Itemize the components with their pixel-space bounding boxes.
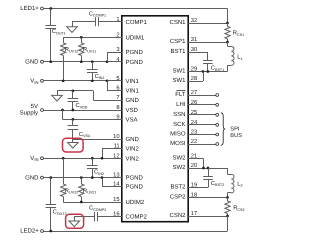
terminal MOSI xyxy=(216,143,219,146)
svg-text:CSN1: CSN1 xyxy=(169,19,186,26)
svg-text:GND: GND xyxy=(126,136,140,143)
wire LHI pin26 to terminal xyxy=(188,104,216,106)
svg-text:SSN: SSN xyxy=(173,111,185,118)
inductor L2 xyxy=(227,168,229,174)
IC U1 LED-driver controller body outline xyxy=(122,16,188,222)
node junction UDIM1 / RUV11 xyxy=(80,36,83,39)
svg-text:CSP2: CSP2 xyxy=(170,194,186,201)
svg-text:VSA: VSA xyxy=(126,117,138,124)
wire VIN1 pin6 riser xyxy=(107,81,109,91)
capacitor CIN2 xyxy=(92,158,94,165)
svg-text:5V: 5V xyxy=(31,103,38,110)
wire SW1 pin29 xyxy=(188,71,228,73)
wire SW2 pin20 xyxy=(188,168,228,170)
wire BST2 pin19 xyxy=(188,187,208,189)
wire VSA pin9 riser xyxy=(62,110,64,119)
capacitor CIN1 xyxy=(92,62,94,70)
wire BST1 pin30 to CBST1 xyxy=(188,52,208,54)
wire CSN2 pin17 xyxy=(188,216,228,218)
wire FLT pin27 to terminal xyxy=(188,95,216,97)
svg-text:GND: GND xyxy=(25,174,39,181)
wire top rail drop to CSN1 xyxy=(227,9,229,24)
wire GND pin7 jog xyxy=(93,100,122,102)
node junction GND/RUV21 xyxy=(80,176,83,179)
node junction PGND pins 3-4 xyxy=(106,60,109,63)
wire VIN2 pin11 riser xyxy=(102,148,122,150)
wire PGND pin14 riser xyxy=(102,178,104,187)
svg-text:SW2: SW2 xyxy=(172,164,186,171)
svg-text:FLT: FLT xyxy=(175,91,186,98)
svg-text:UDIM1: UDIM1 xyxy=(126,35,145,42)
capacitor CCOMP1 xyxy=(95,17,97,26)
capacitor CBST2 xyxy=(208,168,210,176)
wire COMP1 pin1 to CCOMP1 xyxy=(98,21,122,23)
capacitor CVSA xyxy=(72,119,74,126)
wire top rail LED1+ to CSN1 column xyxy=(43,8,227,10)
node junction VIN/RUV12 xyxy=(62,79,65,82)
svg-text:SPI: SPI xyxy=(230,127,240,133)
resistor RUV12 xyxy=(63,37,65,42)
node junction GND/COUT2 xyxy=(49,176,52,179)
terminal SSN xyxy=(216,113,219,116)
resistor RUV11 xyxy=(81,37,83,42)
svg-text:CSN2: CSN2 xyxy=(169,212,186,219)
terminal MISO xyxy=(216,133,219,136)
svg-text:SW1: SW1 xyxy=(172,68,186,75)
node junction VSD/CVDD xyxy=(72,109,75,112)
wire CSP1 pin31 xyxy=(188,42,228,44)
svg-text:Supply: Supply xyxy=(20,109,38,116)
node junction GND/CIN2 xyxy=(91,176,94,179)
capacitor CCOMP2 xyxy=(94,212,96,221)
wire MISO pin23 to terminal xyxy=(188,134,216,136)
ground symbol at CCOMP1 xyxy=(67,27,78,33)
svg-text:UDIM2: UDIM2 xyxy=(126,199,145,206)
node junction CSN2/RCS2 xyxy=(226,215,229,218)
resistor RCS2 xyxy=(227,198,229,202)
node junction VIN1 pins 5-6 xyxy=(106,79,109,82)
node junction VSD/VSA riser xyxy=(61,109,64,112)
terminal FLT xyxy=(216,94,219,97)
node junction VSA/CVSA xyxy=(72,118,75,121)
svg-text:BUS: BUS xyxy=(230,133,242,139)
wire CSP2 pin18 xyxy=(188,197,228,199)
node junction VIN2/RUV22 xyxy=(62,157,65,160)
svg-text:PGND: PGND xyxy=(126,59,144,66)
svg-text:LED1+: LED1+ xyxy=(20,5,39,12)
terminal LHI xyxy=(216,103,219,106)
wire SCK pin24 to terminal xyxy=(188,124,216,126)
wire GND pin10 xyxy=(73,139,122,141)
wire COMP2 pin16 to CCOMP2 xyxy=(97,216,122,218)
svg-text:VSD: VSD xyxy=(126,107,139,114)
svg-text:GND: GND xyxy=(126,97,140,104)
ground symbol at CVSA highlighted xyxy=(68,143,79,149)
node junction CVDD top xyxy=(72,90,75,93)
wire PGND pin3 riser xyxy=(107,52,122,54)
svg-text:LED2+: LED2+ xyxy=(20,228,39,235)
terminal SCK xyxy=(216,123,219,126)
node junction SW2 pins 20-21 xyxy=(202,167,205,170)
svg-text:BST2: BST2 xyxy=(170,184,186,191)
capacitor CBST1 xyxy=(203,60,213,62)
wire GND to PGND pin13 xyxy=(43,177,122,179)
wire 5V supply to VSD pin8 xyxy=(43,110,122,112)
node junction SW1/CBST1 xyxy=(206,70,209,73)
node junction CSP1/L1 xyxy=(226,41,229,44)
wire SW1 pin28 riser xyxy=(188,81,203,83)
node junction SW2/CBST2 xyxy=(207,167,210,170)
wire CSN2 drop to bottom rail xyxy=(227,216,229,231)
node junction VIN2/CIN2 xyxy=(91,157,94,160)
node junction GND/RUV11 xyxy=(80,60,83,63)
svg-text:CSP1: CSP1 xyxy=(170,38,186,45)
wire CCOMP2 to ground xyxy=(74,216,94,218)
resistor RUV21 xyxy=(81,178,83,184)
svg-text:LHI: LHI xyxy=(176,101,186,108)
wire MOSI pin22 to terminal xyxy=(188,144,216,146)
wire GND to PGND pin4 xyxy=(43,61,122,63)
svg-text:COMP1: COMP1 xyxy=(126,19,148,26)
ground symbol at GND pin7 xyxy=(52,95,63,101)
ground symbol at CCOMP2 highlighted xyxy=(69,221,80,227)
capacitor CVDD xyxy=(72,91,74,99)
red highlight box around CCOMP2 ground xyxy=(66,214,84,228)
node junction PGND pins 13-14 xyxy=(101,176,104,179)
node junction VIN/CIN1 xyxy=(91,79,94,82)
wire VIN to VIN1 pin5 xyxy=(43,80,122,82)
node junction CSN1/RCS1 xyxy=(226,22,229,25)
wire SW2 pin21 riser xyxy=(188,158,204,160)
red highlight box around CVSA ground xyxy=(63,138,84,152)
wire bottom rail LED2+ to CSN2 column xyxy=(43,231,227,233)
wire CCOMP1 to ground xyxy=(72,21,95,23)
svg-text:PGND: PGND xyxy=(126,184,144,191)
node junction VIN2 pins 11-12 xyxy=(101,157,104,160)
svg-text:VIN2: VIN2 xyxy=(126,146,140,153)
svg-text:SCK: SCK xyxy=(173,121,185,128)
wire CSN1 pin32 xyxy=(188,23,228,25)
node junction UDIM2/RUV21 xyxy=(80,201,83,204)
svg-text:COMP2: COMP2 xyxy=(126,214,148,221)
svg-text:SW2: SW2 xyxy=(172,155,186,162)
svg-text:VIN2: VIN2 xyxy=(126,155,140,162)
wire UDIM2 pin15 xyxy=(63,202,122,204)
svg-text:GND: GND xyxy=(25,58,39,65)
resistor RUV22 xyxy=(63,158,65,184)
node junction SW1 pins 28-29 xyxy=(202,70,205,73)
node junction LED1+ / COUT1 xyxy=(49,7,52,10)
svg-text:SW1: SW1 xyxy=(172,77,186,84)
svg-text:BST1: BST1 xyxy=(170,48,186,55)
resistor RCS1 xyxy=(227,23,229,26)
node junction CSP2/L2 xyxy=(226,196,229,199)
wire VIN to VIN2 pin12 xyxy=(43,158,122,160)
svg-text:VIN1: VIN1 xyxy=(126,78,140,85)
svg-text:VIN1: VIN1 xyxy=(126,88,140,95)
inductor L1 xyxy=(227,42,229,47)
brace SPI BUS xyxy=(221,113,225,145)
svg-text:PGND: PGND xyxy=(126,175,144,182)
svg-text:PGND: PGND xyxy=(126,49,144,56)
svg-text:MISO: MISO xyxy=(170,131,186,138)
capacitor COUT1 xyxy=(50,9,52,25)
wire SSN pin25 to terminal xyxy=(188,114,216,116)
node junction GND/CIN1 xyxy=(91,60,94,63)
node junction LED2+/COUT2 xyxy=(49,230,52,233)
wire UDIM1 pin2 xyxy=(63,37,122,39)
svg-text:MOSI: MOSI xyxy=(170,140,186,147)
capacitor COUT2 xyxy=(50,178,52,205)
node junction GND/COUT1 xyxy=(49,60,52,63)
